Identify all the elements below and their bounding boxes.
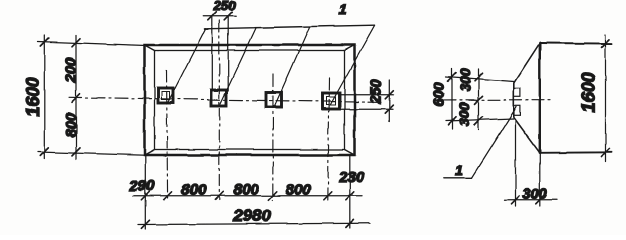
side view: horizontal centerline (dash-dot) [444,99,551,101]
dimension 2980: dimension line [138,223,370,224]
bottom dimensions: extension line left [144,156,146,229]
side view: upper slope of socket [514,43,540,83]
svg-text:800: 800 [63,112,80,138]
svg-text:1600: 1600 [579,72,599,112]
svg-text:1: 1 [455,162,463,178]
dimension 1600 (right): tick marks [602,39,610,156]
svg-text:800: 800 [233,182,259,199]
hole H2 [211,90,227,106]
callout 1 (side view): leader underline [443,177,472,179]
dimension 250 (right of plan, hole height): extension lines [341,95,393,109]
left dimensions: extension line top [38,42,146,46]
leader line from hole H2 to callout 1 [221,28,257,104]
svg-text:230: 230 [338,169,365,186]
svg-text:300: 300 [457,68,473,92]
side view: left vertical edge [539,43,541,153]
leader line from hole H1 to callout 1 [168,29,206,103]
hole H3 [267,92,282,107]
leader line from hole H3 to callout 1 [275,27,310,105]
dimensions 200/800 (left inner): tick marks [72,38,80,156]
dimensions 200/800 (left inner): dimension line [75,35,77,159]
dimension 250 (right): tick marks [385,91,393,113]
dimension 2980: tick marks [141,219,354,228]
side view: hole upper lip [514,88,521,97]
dimension 1600 (left): tick marks [41,38,49,156]
side view: hole lower lip [514,106,521,116]
bevel edge top-right [345,45,355,51]
leader line from hole H4 to callout 1 [331,25,375,104]
svg-text:1: 1 [339,1,347,17]
vertical axis line hole H1 [167,70,168,200]
dimension 250 (top, hole width): extension lines [212,16,228,91]
svg-text:1600: 1600 [23,77,43,117]
bottom dimensions: extension line right [349,156,351,228]
vertical axis line hole H4 [328,78,330,200]
dimension 1600 (left): dimension line [44,35,46,159]
svg-text:250: 250 [369,79,385,104]
vertical axis line hole H2 [218,20,220,200]
svg-text:300: 300 [523,187,547,203]
dimension 1600 (right): dimension line [605,35,607,162]
horizontal centerline (dash-dot) [69,97,382,102]
dimension 250 (top): tick marks [208,12,232,20]
dimension 600: dimension line [451,69,453,130]
svg-text:800: 800 [285,182,311,199]
dimension 300 (bottom): tick marks [512,196,544,204]
svg-text:250: 250 [213,0,236,13]
bevel edge bottom-left [145,150,155,156]
dimensions 300/300: dimension line [478,69,480,130]
svg-text:200: 200 [63,57,80,84]
plan view: inner (bottom face) outline [155,51,345,150]
callout shelf line [205,25,375,29]
hole H1 (square opening) [158,88,173,103]
vertical axis line hole H3 [272,74,274,200]
svg-text:290: 290 [128,178,155,195]
svg-text:800: 800 [181,182,207,199]
plan view: outer outline [145,45,355,155]
bevel edge bottom-right [345,150,355,156]
side view: socket vertical face [513,83,515,118]
left dimensions: extension line bottom [38,152,146,155]
dimension 600: tick marks [448,73,456,125]
svg-text:2980: 2980 [232,206,271,225]
side view dims: extension line bottom [446,119,514,122]
side view dims: extension line top [446,77,514,82]
bevel edge top-left [145,45,155,51]
dimension 250 (right): dimension line [388,80,390,122]
callout 1 (side view): leader diagonal [472,107,517,178]
side view: lower slope of socket [514,118,540,153]
side view: top edge [540,42,612,45]
hole H4 [323,93,340,109]
dimension row 290/800/800/800/230: dimension line [133,195,362,197]
dimension 250 (top): dimension line [204,15,236,17]
dimensions 300/300: tick marks [475,73,483,125]
svg-text:600: 600 [432,82,448,106]
svg-text:300: 300 [456,103,472,127]
dimension 300 (bottom): extension line right [539,154,541,206]
dimension 300 (bottom of side view): extension line left [515,120,517,206]
dimension row 1: tick marks [141,192,353,200]
side view: bottom edge [540,151,612,154]
dimension 300 (bottom): dimension line [504,199,557,201]
